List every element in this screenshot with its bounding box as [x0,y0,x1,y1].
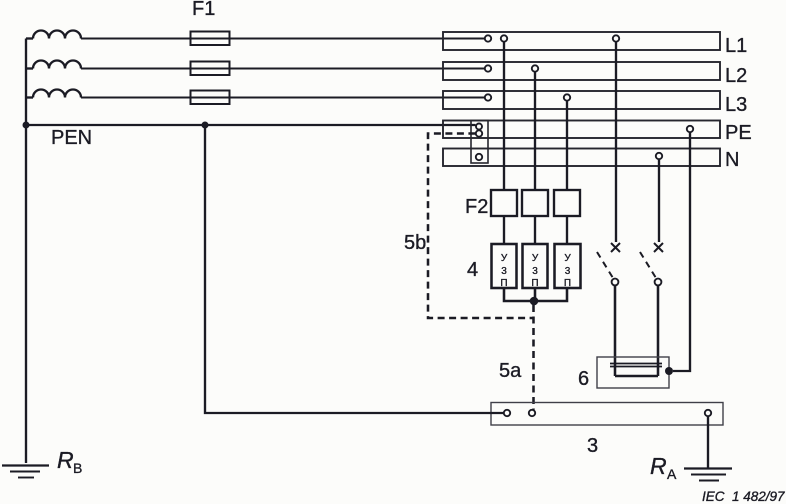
wire L3 phase conductor [81,97,485,99]
svg-text:5b: 5b [404,232,426,254]
wire 5b dashed (SPD earth to main earthing terminal) [428,134,533,319]
label IEC figure number [702,489,785,504]
transformer winding L1 [26,31,81,39]
svg-text:R: R [57,447,74,473]
SPD 4 unit 3 [555,244,581,289]
label PE [725,122,752,144]
label L3 [725,94,747,116]
terminal L3 feed [485,94,491,100]
wire N to disconnector 2 [658,159,660,242]
fuse F1 pole 2 [191,62,230,76]
terminal L2 to SPD [532,65,538,71]
label 6 [578,368,589,390]
wire SPD commoning bar [504,288,567,301]
wire L1 to F2 [503,42,505,190]
junction star point / PEN [23,122,30,129]
wire F2-1 to SPD-1 [503,216,505,244]
label F2 [465,196,488,218]
ground RB [2,466,49,478]
wire L2 phase conductor [81,68,485,70]
terminal L1 to switch [613,35,619,41]
svg-text:L3: L3 [725,94,747,116]
svg-text:3: 3 [501,266,507,277]
svg-text:R: R [650,453,667,479]
wire PE to RCD earth terminal [673,132,690,371]
label L1 [725,35,747,57]
svg-text:PE: PE [725,122,752,144]
terminal L2 feed [485,65,491,71]
junction PEN tap [202,122,209,129]
busbar N [443,149,720,167]
terminal L3 to SPD [564,94,570,100]
terminal earth bar right (RA) [705,410,711,416]
wire L1 phase conductor [81,38,485,40]
fuse F2 pole 3 [554,190,580,216]
earth bar 3 [491,403,723,426]
svg-text:L1: L1 [725,35,747,57]
svg-text:У: У [501,253,508,264]
busbar PE [443,121,720,139]
svg-text:IEC 1 482/97: IEC 1 482/97 [702,489,785,504]
label PEN [51,127,92,149]
svg-text:PEN: PEN [51,127,92,149]
svg-text:П: П [531,278,538,289]
terminal L1 to SPD [501,35,507,41]
wire F2-3 to SPD-3 [566,216,568,244]
wire F2-2 to SPD-2 [534,216,536,244]
label RA [650,453,677,482]
junction RCD earth [665,367,673,375]
busbar L2 [443,62,720,80]
svg-text:У: У [564,253,571,264]
ground RA [684,469,732,481]
disconnector contact mark 2 (x) [654,243,663,252]
terminal PE to RCD [687,126,693,132]
svg-text:3: 3 [587,435,598,457]
svg-text:3: 3 [532,266,538,277]
wire 5a dashed (SPD common to earth bar) [532,305,535,410]
svg-text:B: B [73,460,82,476]
terminal PEN-PE upper [476,124,482,130]
busbar L3 [443,91,720,109]
RCD core (double line) [610,364,662,367]
label 3 [587,435,598,457]
svg-text:L2: L2 [725,65,747,87]
PEN splitting terminal block [471,121,488,164]
svg-text:У: У [532,253,539,264]
wire disconnector 2 to RCD [657,285,660,376]
SPD 4 unit 1 [492,244,517,289]
label 5b [404,232,426,254]
svg-text:F2: F2 [465,196,488,218]
svg-text:6: 6 [578,368,589,390]
terminal N to switch [656,153,662,159]
wire PEN to earth bar [205,125,504,413]
disconnector terminal 1 [612,279,619,286]
label F1 [192,0,215,20]
label 4 [467,259,478,281]
svg-text:4: 4 [467,259,478,281]
wire earth bar to ground RA [707,416,709,468]
svg-text:N: N [725,149,739,171]
disconnector blade 1 dashed [597,252,613,278]
svg-text:F1: F1 [192,0,215,20]
wire L3 to F2 [566,101,568,190]
label RB [57,447,82,476]
svg-text:A: A [667,466,677,482]
junction SPD common point [530,297,539,306]
label L2 [725,65,747,87]
SPD 4 unit 2 [523,244,548,289]
transformer winding L2 [26,61,81,69]
svg-text:5a: 5a [499,360,522,382]
svg-text:3: 3 [565,266,571,277]
terminal PEN-PE lower [476,130,482,136]
disconnector contact mark 1 (x) [611,243,620,252]
wire: transformer star point vertical [25,39,27,464]
fuse F2 pole 1 [491,190,517,216]
label 5a [499,360,522,382]
fuse F2 pole 2 [522,190,548,216]
busbar L1 [443,32,720,50]
wire PEN conductor [26,124,476,126]
terminal earth bar left (PEN) [504,410,510,416]
disconnector blade 2 dashed [640,252,656,278]
svg-text:П: П [500,278,507,289]
wire L2 to F2 [534,72,536,190]
svg-text:П: П [564,278,571,289]
transformer winding L3 [26,90,81,98]
RCD 6 enclosure [597,357,669,388]
terminal L1 feed [485,35,491,41]
fuse F1 pole 1 [191,32,230,46]
label N [725,149,739,171]
wire disconnector 1 to RCD [614,285,617,376]
terminal PEN-N [476,154,482,160]
fuse F1 pole 3 [191,91,230,105]
wire L1 to disconnector 1 [615,42,617,242]
terminal earth bar 5a [529,410,535,416]
disconnector terminal 2 [655,279,662,286]
RCD conductor U loop bottom [615,375,658,378]
